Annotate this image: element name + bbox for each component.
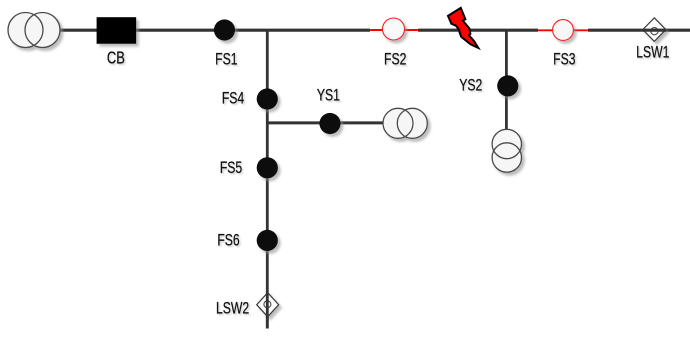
svg-text:YS2: YS2 <box>459 77 482 95</box>
svg-text:FS4: FS4 <box>222 90 244 108</box>
svg-text:FS1: FS1 <box>215 51 237 69</box>
svg-text:CB: CB <box>107 49 125 68</box>
svg-text:LSW1: LSW1 <box>636 44 669 62</box>
svg-text:LSW2: LSW2 <box>216 300 249 318</box>
svg-text:FS5: FS5 <box>220 159 242 177</box>
svg-text:YS1: YS1 <box>317 87 340 105</box>
svg-text:FS3: FS3 <box>553 51 575 69</box>
svg-text:FS2: FS2 <box>384 51 406 69</box>
svg-text:FS6: FS6 <box>217 232 239 250</box>
